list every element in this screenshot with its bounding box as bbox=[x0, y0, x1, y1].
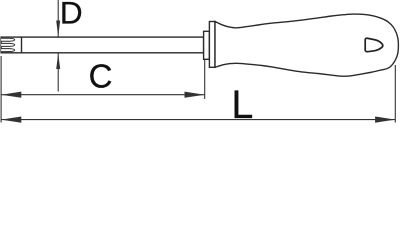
svg-text:L: L bbox=[231, 83, 253, 125]
svg-text:D: D bbox=[60, 0, 83, 31]
svg-text:C: C bbox=[89, 58, 113, 95]
